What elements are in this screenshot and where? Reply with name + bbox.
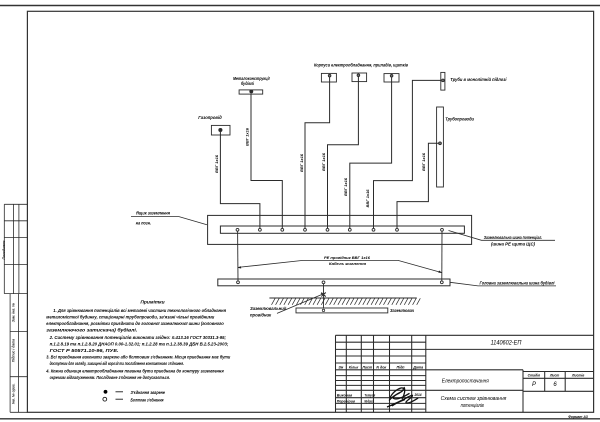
svg-text:доступним для огляду, захищені: доступним для огляду, захищені від короз…	[50, 360, 184, 367]
svg-text:Дата: Дата	[412, 366, 423, 370]
svg-text:ВВГ 1х16: ВВГ 1х16	[300, 153, 304, 172]
svg-text:електрообладнання, розмітки пр: електрообладнання, розмітки приєднати до…	[46, 320, 223, 327]
svg-text:Підп: Підп	[397, 366, 406, 370]
svg-text:Формат А3: Формат А3	[568, 415, 588, 419]
svg-text:Кільк: Кільк	[349, 366, 359, 370]
svg-text:потенціалів: потенціалів	[461, 403, 484, 409]
svg-text:Тетуся: Тетуся	[364, 394, 376, 398]
svg-text:ВВГ 1х16: ВВГ 1х16	[422, 152, 426, 171]
svg-text:1140602-ЕП: 1140602-ЕП	[491, 340, 522, 347]
svg-text:окремим відгалуженням. Послідо: окремим відгалуженням. Послідовне з'єдна…	[50, 375, 170, 381]
svg-text:Примітки: Примітки	[140, 300, 164, 306]
svg-text:ВВГ 1х16: ВВГ 1х16	[344, 177, 348, 196]
svg-text:п.1.2.8.19 та п.1.2.8.20 ДНАО: п.1.2.8.19 та п.1.2.8.20 ДНАОП 0.00-1.32…	[50, 341, 229, 347]
svg-text:Р: Р	[532, 382, 536, 388]
svg-text:Заземлювальний: Заземлювальний	[250, 306, 287, 311]
svg-text:Виконав: Виконав	[337, 394, 353, 398]
svg-text:(шина РЕ щита ЩС): (шина РЕ щита ЩС)	[491, 242, 536, 247]
svg-text:ВВГ 1х16: ВВГ 1х16	[215, 154, 219, 173]
svg-text:Корпуси електрообладнання, при: Корпуси електрообладнання, приладів, щит…	[314, 63, 408, 68]
svg-text:N док: N док	[376, 366, 386, 370]
svg-text:2. Систему зрівнювання потенці: 2. Систему зрівнювання потенціалів викон…	[49, 335, 227, 341]
svg-text:Газопровід: Газопровід	[198, 115, 222, 120]
svg-text:будівлі: будівлі	[241, 81, 255, 86]
svg-text:2014: 2014	[413, 393, 421, 397]
svg-text:Заземлювач: Заземлювач	[390, 308, 415, 313]
svg-text:Зм: Зм	[338, 366, 343, 370]
svg-text:ВВГ 1х16: ВВГ 1х16	[246, 127, 250, 146]
svg-text:Кабель живлення: Кабель живлення	[329, 261, 367, 266]
svg-text:ВВГ 1х16: ВВГ 1х16	[366, 188, 370, 207]
svg-text:Листів: Листів	[571, 373, 584, 377]
svg-text:Погоджено: Погоджено	[2, 241, 6, 260]
svg-text:провідник: провідник	[250, 312, 272, 317]
svg-text:Зам. інв. №: Зам. інв. №	[12, 303, 16, 322]
svg-text:Схема систем зрівнювання: Схема систем зрівнювання	[441, 396, 507, 402]
svg-text:Болтове з'єднання: Болтове з'єднання	[131, 397, 164, 403]
svg-text:РЕ провідник ВВГ 1х16: РЕ провідник ВВГ 1х16	[324, 255, 371, 260]
svg-text:1. Для зрівнювання потенціалів: 1. Для зрівнювання потенціалів всі метал…	[53, 307, 226, 314]
svg-text:Ящик заземлення: Ящик заземлення	[135, 211, 170, 216]
svg-text:Стадія: Стадія	[528, 373, 540, 377]
svg-text:3. Всі приєднання виконати зва: 3. Всі приєднання виконати зваркою або б…	[46, 354, 230, 361]
svg-text:Інв. № ориг.: Інв. № ориг.	[12, 383, 16, 404]
svg-text:заземлюючого затискача) будівл: заземлюючого затискача) будівлі.	[46, 326, 137, 333]
svg-text:на позн.: на позн.	[136, 220, 151, 225]
svg-text:Перевірив: Перевірив	[337, 400, 356, 404]
svg-text:ГОСТ Р 50571.10-96, ПУЕ.: ГОСТ Р 50571.10-96, ПУЕ.	[50, 348, 119, 354]
svg-text:металомісткої будинку, стаціон: металомісткої будинку, стаціонарні трубо…	[46, 313, 214, 320]
svg-text:Лист: Лист	[549, 373, 559, 377]
svg-text:Трубопроводи: Трубопроводи	[445, 117, 474, 122]
svg-text:Мудрий: Мудрий	[364, 400, 374, 404]
svg-text:Заземлювальна шина потенціал.: Заземлювальна шина потенціал.	[484, 235, 543, 240]
svg-text:Головна заземлювальна шина буд: Головна заземлювальна шина будівлі	[480, 281, 556, 286]
svg-text:4. Кожна одиниця електрообладн: 4. Кожна одиниця електрообладнання повин…	[45, 368, 223, 375]
svg-text:Підпис і дата: Підпис і дата	[12, 339, 16, 362]
svg-text:Труби в монолітній підлозі: Труби в монолітній підлозі	[450, 77, 507, 82]
svg-text:З'єднання зварене: З'єднання зварене	[131, 390, 166, 396]
svg-text:ВВГ 1х16: ВВГ 1х16	[322, 152, 326, 171]
svg-text:Електропостачання: Електропостачання	[442, 379, 489, 385]
svg-text:Лист: Лист	[361, 366, 373, 370]
